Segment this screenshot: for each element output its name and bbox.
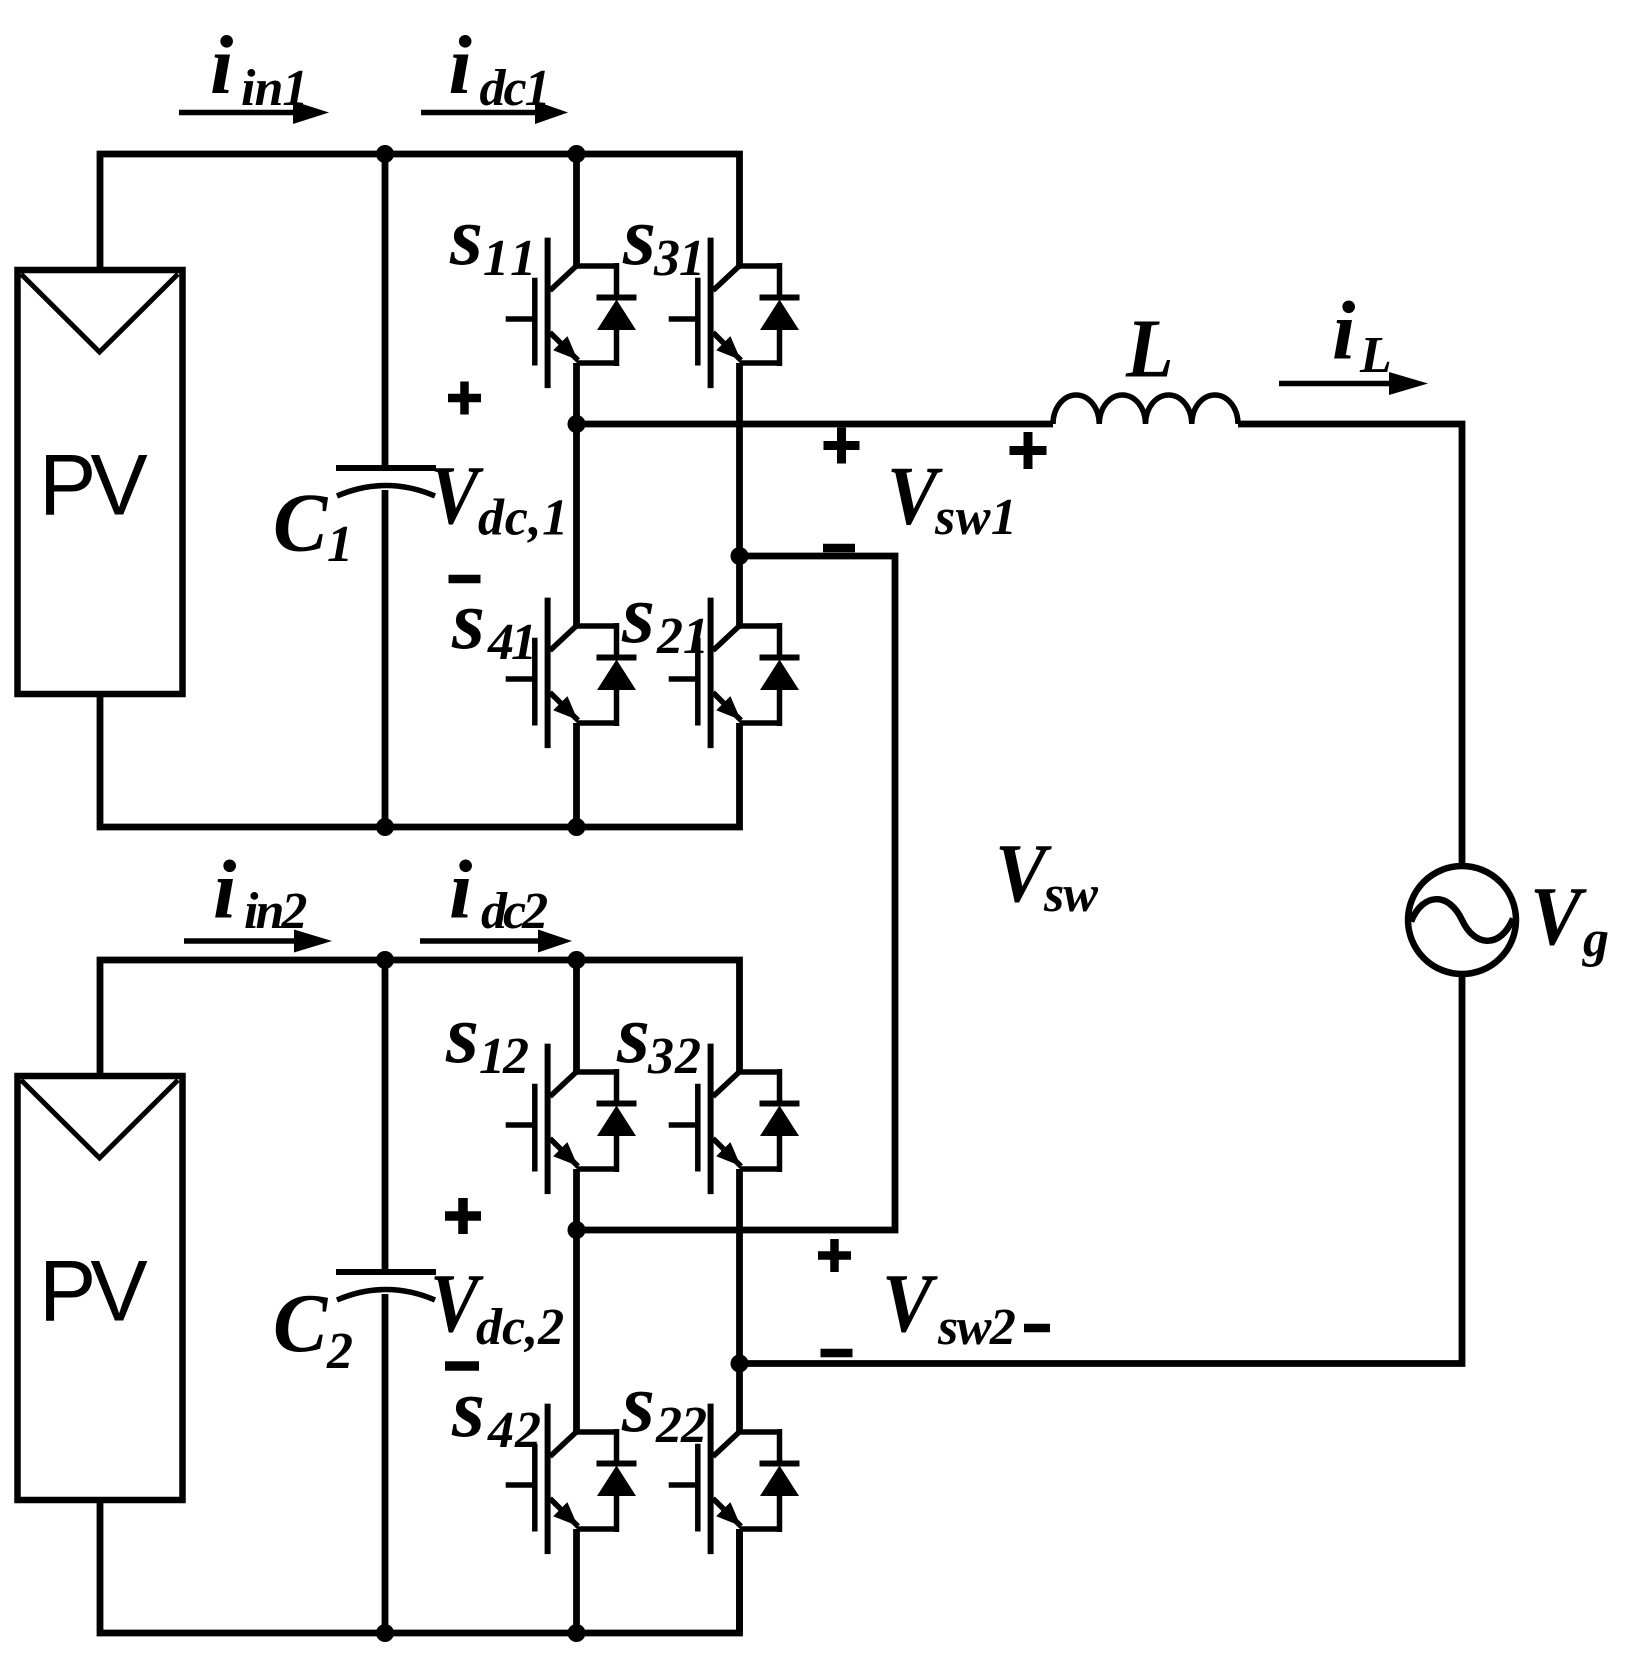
svg-text:s: s <box>445 988 479 1081</box>
svg-text:dc,2: dc,2 <box>476 1299 564 1356</box>
svg-text:12: 12 <box>479 1028 528 1085</box>
svg-text:i: i <box>210 19 233 112</box>
svg-text:1: 1 <box>327 516 353 573</box>
svg-text:PV: PV <box>39 438 147 534</box>
svg-text:V: V <box>1530 870 1587 963</box>
svg-text:22: 22 <box>655 1397 706 1454</box>
svg-text:V: V <box>882 1257 938 1350</box>
svg-text:dc2: dc2 <box>481 883 547 940</box>
svg-text:s: s <box>621 1357 655 1450</box>
svg-text:s: s <box>616 988 650 1081</box>
svg-text:41: 41 <box>487 614 534 671</box>
svg-text:i: i <box>449 19 472 112</box>
svg-text:dc1: dc1 <box>480 60 549 117</box>
svg-text:i: i <box>1332 285 1355 378</box>
svg-text:sw1: sw1 <box>934 489 1017 546</box>
svg-text:s: s <box>622 190 656 283</box>
svg-text:in2: in2 <box>244 883 306 940</box>
svg-text:31: 31 <box>653 230 704 287</box>
svg-text:s: s <box>451 574 485 667</box>
svg-text:dc,1: dc,1 <box>478 490 569 547</box>
svg-text:i: i <box>213 844 236 937</box>
svg-text:in1: in1 <box>241 60 307 117</box>
svg-text:11: 11 <box>483 230 540 287</box>
svg-text:42: 42 <box>487 1402 542 1459</box>
svg-text:PV: PV <box>39 1244 147 1340</box>
svg-text:g: g <box>1582 911 1609 968</box>
svg-text:i: i <box>449 844 472 937</box>
svg-text:s: s <box>451 1362 485 1455</box>
svg-text:sw2: sw2 <box>937 1299 1015 1356</box>
svg-text:C: C <box>273 1277 328 1370</box>
svg-text:21: 21 <box>656 608 709 665</box>
svg-text:V: V <box>430 449 484 542</box>
svg-text:sw: sw <box>1043 866 1098 923</box>
svg-text:C: C <box>273 477 328 570</box>
svg-text:L: L <box>1125 303 1174 396</box>
svg-text:32: 32 <box>647 1028 702 1085</box>
svg-text:L: L <box>1359 327 1392 384</box>
svg-text:s: s <box>449 190 483 283</box>
svg-text:2: 2 <box>326 1323 353 1380</box>
svg-text:s: s <box>621 568 655 661</box>
